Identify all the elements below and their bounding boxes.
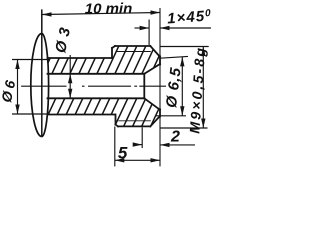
hole bottom bbox=[48, 97, 145, 99]
flange face line + 10min left extension bbox=[41, 9, 43, 136]
svg-text:2: 2 bbox=[170, 129, 180, 146]
M9 ext top bbox=[160, 46, 209, 48]
2 right (points left) bbox=[160, 143, 170, 147]
thread OD bottom bbox=[118, 125, 150, 127]
1x45 ext line bbox=[148, 20, 150, 46]
dia6.5 ext bottom bbox=[156, 115, 187, 117]
dia6.5 dim line bbox=[181, 57, 183, 116]
step bottom bbox=[115, 115, 117, 125]
cone top bbox=[144, 64, 160, 74]
chamfer top bbox=[150, 46, 160, 57]
dia6 dim line bbox=[17, 60, 19, 115]
dia3 up bbox=[68, 74, 72, 84]
2 left tail bbox=[134, 144, 143, 146]
hole top bbox=[48, 73, 145, 75]
dia6 top (up) bbox=[15, 60, 19, 70]
long right extension line (end face) bbox=[159, 8, 161, 166]
svg-text:1×450: 1×450 bbox=[167, 7, 213, 27]
M9 ext bottom bbox=[160, 127, 208, 129]
thread lead chamfer bottom bbox=[116, 125, 119, 127]
5 dim line bbox=[115, 159, 160, 161]
cone bottom bbox=[144, 98, 160, 110]
thread lead chamfer top bbox=[112, 46, 115, 48]
10min left bbox=[42, 12, 52, 16]
1x45 left arrow (points right) bbox=[140, 26, 150, 30]
end face solid top bbox=[159, 56, 161, 64]
thread OD top bbox=[115, 45, 150, 47]
flange dome (left arc) bbox=[31, 34, 42, 137]
centerline bbox=[21, 85, 166, 87]
1x45 right arrow (points left) bbox=[160, 26, 170, 30]
2 right tail bbox=[160, 144, 195, 146]
5 right (points right) bbox=[151, 158, 161, 162]
body bottom bbox=[48, 114, 116, 116]
step top bbox=[111, 48, 113, 58]
10 min dimension line bbox=[42, 13, 160, 15]
M9 up bbox=[201, 47, 205, 57]
part outline bbox=[48, 46, 161, 126]
dia3 dim line bbox=[69, 55, 71, 98]
dia6.5 ext top bbox=[160, 56, 188, 58]
dia3 down bbox=[68, 89, 72, 99]
dia6 ext top bbox=[12, 59, 49, 61]
dia6.5 up bbox=[180, 57, 184, 67]
svg-text:5: 5 bbox=[118, 144, 128, 163]
end face solid bottom bbox=[159, 109, 161, 116]
chamfer bottom bbox=[150, 116, 160, 126]
5 ext line (step) bbox=[114, 127, 116, 167]
M9 dim line bbox=[202, 47, 204, 129]
5 left (points left) bbox=[115, 158, 125, 162]
flange right lens arc bbox=[42, 34, 49, 137]
10min right bbox=[151, 10, 161, 14]
1x45 left tail bbox=[135, 27, 150, 29]
M9 down bbox=[201, 119, 205, 129]
body top bbox=[48, 57, 113, 59]
dia6.5 down bbox=[180, 106, 184, 116]
svg-text:10 min: 10 min bbox=[85, 1, 133, 18]
2 left (points right) bbox=[133, 142, 143, 146]
1x45 right tail bbox=[160, 27, 211, 29]
inner face bbox=[143, 74, 145, 99]
thread root lines (thin) bbox=[116, 51, 151, 53]
dia6 ext bottom bbox=[12, 113, 49, 115]
dia6 bottom (down) bbox=[15, 105, 19, 115]
arrowheads bbox=[15, 10, 205, 162]
2 ext line bbox=[141, 127, 143, 148]
